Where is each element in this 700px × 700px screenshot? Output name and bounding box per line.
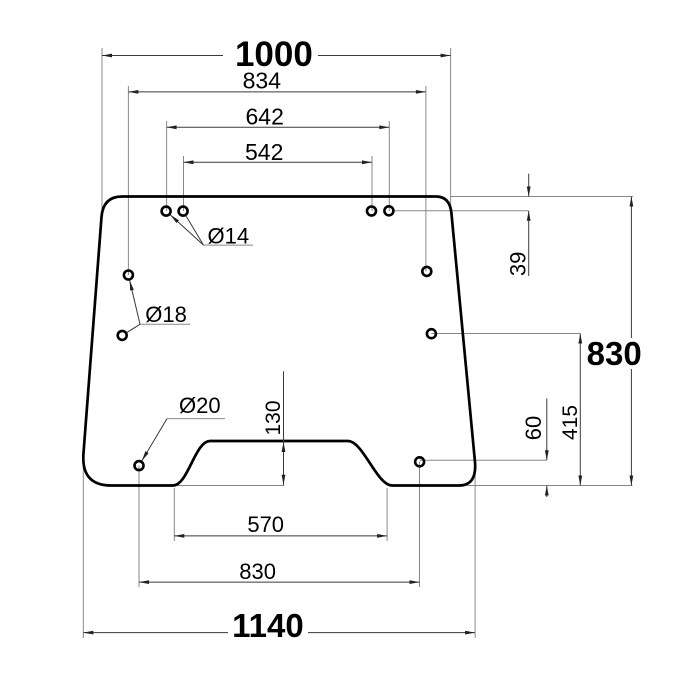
svg-text:834: 834 (243, 68, 282, 94)
svg-text:830: 830 (239, 559, 276, 584)
svg-text:642: 642 (246, 103, 284, 129)
svg-text:39: 39 (506, 252, 531, 276)
svg-text:60: 60 (521, 416, 546, 440)
svg-text:570: 570 (247, 512, 284, 537)
svg-text:Ø20: Ø20 (179, 393, 221, 418)
svg-text:415: 415 (559, 405, 582, 440)
svg-text:830: 830 (587, 335, 642, 372)
svg-text:542: 542 (245, 139, 283, 165)
svg-text:130: 130 (262, 400, 285, 435)
svg-text:Ø18: Ø18 (145, 302, 187, 327)
svg-text:Ø14: Ø14 (208, 224, 250, 249)
svg-text:1140: 1140 (232, 607, 304, 644)
